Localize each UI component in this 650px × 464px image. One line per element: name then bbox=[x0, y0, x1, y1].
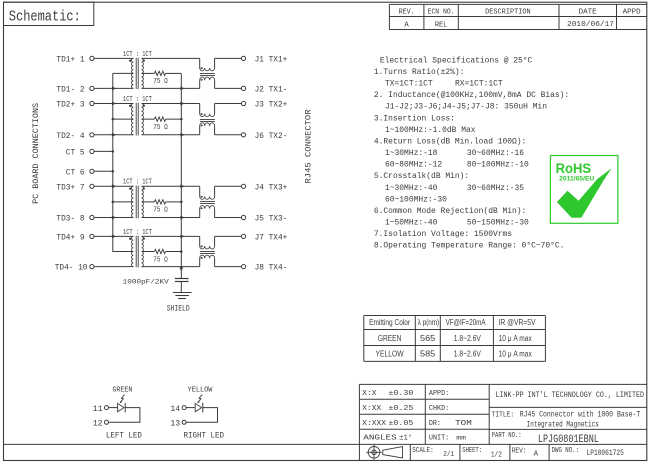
dwg field bbox=[552, 447, 624, 458]
crossover arrow right rail at J8 bbox=[179, 267, 183, 271]
svg-text:Electrical Specifications @ 25: Electrical Specifications @ 25°C bbox=[380, 56, 533, 65]
resistor R2 lead bbox=[166, 118, 182, 120]
wire capacitor to shield ground bbox=[180, 282, 182, 293]
pin 8 terminal bbox=[90, 215, 94, 219]
LED D1 green (left) bbox=[93, 387, 142, 441]
svg-text:4.Return Loss(dB Min.load 100Ω: 4.Return Loss(dB Min.load 100Ω): bbox=[374, 137, 526, 146]
RoHS logo frame bbox=[550, 156, 618, 224]
wire T2 secondary top to choke bbox=[142, 103, 200, 105]
svg-text:J8 TX4-: J8 TX4- bbox=[255, 265, 288, 273]
svg-text:REV.: REV. bbox=[399, 9, 415, 17]
transformer T3 secondary phase dot bbox=[143, 187, 145, 189]
svg-text:ANGLES: ANGLES bbox=[363, 435, 397, 443]
wire choke to pin J6 bbox=[215, 134, 242, 136]
svg-text:60~100MHz:-30: 60~100MHz:-30 bbox=[385, 195, 447, 204]
pin 4 terminal bbox=[90, 133, 94, 137]
transformer T1 secondary winding bbox=[142, 58, 144, 88]
svg-text:LPJG0801EBNL: LPJG0801EBNL bbox=[538, 434, 599, 446]
wire pin 9 bbox=[94, 235, 133, 237]
junction dot R4 on rail bbox=[180, 250, 183, 253]
pin 2 terminal bbox=[90, 86, 94, 90]
svg-text:50~150MHz:-30: 50~150MHz:-30 bbox=[467, 219, 529, 228]
revision table grid bbox=[389, 4, 646, 29]
svg-text:LINK-PP INT'L TECHNOLOGY CO.,: LINK-PP INT'L TECHNOLOGY CO., LIMITED bbox=[496, 391, 645, 400]
projection symbol bbox=[366, 445, 402, 461]
tolerance X:XX bbox=[362, 405, 413, 413]
tolerance X:X bbox=[362, 390, 413, 398]
svg-text:mm: mm bbox=[456, 435, 466, 442]
tolerance X:XXX bbox=[362, 420, 413, 428]
svg-text:J2 TX1-: J2 TX1- bbox=[255, 87, 288, 95]
resistor R2 75 Ohm bbox=[154, 117, 165, 121]
svg-text:CHKD:: CHKD: bbox=[429, 405, 449, 413]
common-mode choke L4 bbox=[200, 236, 215, 266]
resistor R3 75 Ohm bbox=[154, 200, 165, 204]
svg-text:TD4+ 9: TD4+ 9 bbox=[56, 235, 84, 243]
svg-text:30~60MHz:-16: 30~60MHz:-16 bbox=[467, 149, 524, 158]
wire T1 primary center tap bbox=[113, 72, 134, 74]
svg-text:12: 12 bbox=[93, 420, 103, 429]
transformer T2 core bbox=[135, 103, 137, 136]
wire pin 8 bbox=[94, 217, 133, 219]
svg-text:APPD:: APPD: bbox=[429, 390, 449, 398]
common-mode choke L1 bbox=[200, 58, 215, 88]
wire T3 secondary bottom to choke bbox=[142, 217, 200, 219]
svg-text:1000pF/2KV: 1000pF/2KV bbox=[123, 278, 169, 285]
wire pin 3 bbox=[94, 103, 133, 105]
capacitor C1 1000pF/2KV plates bbox=[175, 278, 189, 280]
field UNIT mm bbox=[429, 435, 466, 443]
resistor R1 lead bbox=[166, 72, 182, 74]
svg-text:SHIELD: SHIELD bbox=[167, 304, 190, 314]
pin 10 terminal bbox=[90, 265, 94, 269]
svg-text:GREEN: GREEN bbox=[378, 333, 402, 343]
pin 9 terminal bbox=[90, 234, 94, 238]
crossover arrow right rail at J4 bbox=[180, 184, 184, 188]
Schematic title box bbox=[4, 2, 94, 25]
svg-text:GREEN: GREEN bbox=[112, 387, 132, 395]
svg-text:10 μ A max: 10 μ A max bbox=[499, 333, 533, 343]
LED table YELLOW row bbox=[376, 349, 533, 359]
transformer T1 primary winding bbox=[131, 58, 133, 88]
wire choke to pin J4 bbox=[215, 185, 242, 187]
svg-text:λ p(nm): λ p(nm) bbox=[418, 318, 440, 327]
svg-text:Integrated Magnetics: Integrated Magnetics bbox=[527, 422, 600, 430]
svg-text:LP10061725: LP10061725 bbox=[587, 449, 624, 458]
wire pin 10 bbox=[94, 266, 133, 268]
pin 1 terminal bbox=[90, 56, 94, 60]
crossover arrow left rail at TD3+ bbox=[112, 184, 116, 188]
wire T3 secondary top to choke bbox=[142, 185, 200, 187]
revision table headers bbox=[399, 9, 641, 17]
wire T4 secondary center tap bbox=[142, 251, 155, 253]
svg-text:TD3+ 7: TD3+ 7 bbox=[56, 184, 84, 192]
wire T4 secondary top to choke bbox=[142, 235, 200, 237]
svg-text:DR:: DR: bbox=[429, 420, 441, 428]
revision table row A bbox=[404, 21, 614, 29]
svg-text:3.Insertion Loss:: 3.Insertion Loss: bbox=[374, 114, 455, 123]
transformer T1 primary phase dot bbox=[129, 60, 131, 62]
svg-text:SHEET:: SHEET: bbox=[462, 447, 482, 455]
transformer T3 core bbox=[135, 186, 137, 219]
wire pin 5 bbox=[94, 150, 113, 152]
crossover arrow right rail at J2 bbox=[180, 87, 184, 91]
svg-text:Schematic:: Schematic: bbox=[9, 9, 81, 25]
svg-text:1.Turns Ratio(±2%):: 1.Turns Ratio(±2%): bbox=[374, 68, 465, 77]
crossover arrow left rail at TD2- bbox=[112, 133, 116, 137]
rev field bbox=[512, 447, 539, 458]
resistor R4 75 Ohm bbox=[154, 249, 165, 253]
svg-text:TOM: TOM bbox=[455, 420, 472, 428]
wire T2 secondary center tap bbox=[142, 118, 155, 120]
svg-text:30~60MHz:-35: 30~60MHz:-35 bbox=[467, 184, 524, 193]
svg-text:X:X: X:X bbox=[362, 390, 377, 398]
junction dot R3 on rail bbox=[180, 201, 183, 204]
sheet field bbox=[462, 447, 502, 459]
wire T1 secondary top to choke bbox=[142, 57, 200, 59]
svg-text:10 μ A max: 10 μ A max bbox=[499, 349, 533, 359]
svg-text:DESCRIPTION: DESCRIPTION bbox=[485, 9, 531, 17]
svg-text:75 Ω: 75 Ω bbox=[153, 207, 168, 215]
svg-text:±0.25: ±0.25 bbox=[388, 405, 413, 413]
svg-text:TITLE:: TITLE: bbox=[492, 411, 515, 419]
transformer T1 secondary phase dot bbox=[143, 59, 145, 61]
part number field bbox=[492, 432, 599, 446]
pin J1 terminal bbox=[241, 56, 245, 60]
wire T3 secondary center tap bbox=[142, 201, 155, 203]
svg-text:14: 14 bbox=[170, 405, 180, 414]
svg-text:1CT : 1CT: 1CT : 1CT bbox=[123, 179, 152, 187]
svg-text:A: A bbox=[534, 451, 539, 459]
wire choke to pin J7 bbox=[215, 235, 242, 237]
junction dot CT pin 5 bbox=[112, 150, 115, 153]
svg-text:TD2+ 3: TD2+ 3 bbox=[56, 102, 84, 110]
wire T3 primary center tap bbox=[113, 201, 134, 203]
svg-text:1CT : 1CT: 1CT : 1CT bbox=[123, 229, 152, 237]
svg-text:CT 6: CT 6 bbox=[66, 169, 85, 177]
crossover arrow right rail at J7 bbox=[180, 235, 184, 239]
svg-text:TD1- 2: TD1- 2 bbox=[56, 87, 84, 95]
pin J7 terminal bbox=[241, 234, 245, 238]
svg-text:TD2- 4: TD2- 4 bbox=[56, 133, 84, 141]
wire pin 2 bbox=[94, 87, 133, 89]
electrical specifications text bbox=[374, 56, 569, 250]
svg-text:2/1: 2/1 bbox=[443, 451, 454, 459]
svg-text:565: 565 bbox=[420, 333, 435, 343]
common-mode choke L2 bbox=[200, 104, 215, 135]
wire choke to pin J3 bbox=[215, 103, 242, 105]
transformer T2 secondary winding bbox=[142, 104, 144, 135]
svg-text:80~100MHz:-10: 80~100MHz:-10 bbox=[467, 161, 529, 170]
svg-text:1~30MHz:-18: 1~30MHz:-18 bbox=[385, 149, 438, 158]
svg-text:PART NO.:: PART NO.: bbox=[492, 432, 522, 440]
pin 6 terminal bbox=[90, 169, 94, 173]
svg-text:1CT : 1CT: 1CT : 1CT bbox=[123, 51, 152, 59]
svg-text:REV:: REV: bbox=[512, 447, 527, 455]
svg-text:8.Operating Temperature Range:: 8.Operating Temperature Range: 0°C~70°C. bbox=[374, 242, 565, 251]
svg-text:A: A bbox=[404, 22, 409, 30]
svg-text:13: 13 bbox=[170, 420, 180, 429]
svg-text:YELLOW: YELLOW bbox=[376, 349, 405, 359]
crossover arrow left rail at TD1- bbox=[112, 87, 116, 91]
resistor R4 lead bbox=[166, 251, 182, 253]
svg-text:SCALE:: SCALE: bbox=[412, 447, 434, 455]
svg-text:2010/06/17: 2010/06/17 bbox=[567, 21, 614, 29]
LED table GREEN row bbox=[378, 333, 532, 343]
wire pin 6 bbox=[94, 170, 113, 172]
crossover arrow left rail at TD2+ bbox=[112, 102, 116, 106]
crossover arrow right rail at J6 bbox=[180, 133, 184, 137]
svg-text:PC BOARD CONNECTIONS: PC BOARD CONNECTIONS bbox=[32, 103, 41, 204]
svg-text:2. Inductance(@100KHz,100mV,8m: 2. Inductance(@100KHz,100mV,8mA DC Bias)… bbox=[374, 91, 569, 100]
svg-text:11: 11 bbox=[93, 405, 103, 414]
junction dot CT pin 6 bbox=[112, 170, 115, 173]
svg-text:VF@IF=20mA: VF@IF=20mA bbox=[446, 318, 487, 327]
wire pin 4 bbox=[94, 134, 133, 136]
svg-text:TD3- 8: TD3- 8 bbox=[56, 216, 84, 224]
svg-text:1~100MHz:-1.0dB Max: 1~100MHz:-1.0dB Max bbox=[385, 126, 476, 135]
transformer T4 primary phase dot bbox=[129, 238, 131, 240]
pin J2 terminal bbox=[241, 86, 245, 90]
pin 7 terminal bbox=[90, 184, 94, 188]
field DR TOM bbox=[429, 420, 472, 428]
LED D2 yellow (right) bbox=[170, 387, 224, 441]
svg-text:±1°: ±1° bbox=[399, 434, 412, 443]
RoHS checkmark bbox=[557, 168, 612, 218]
svg-text:60~80MHz:-12: 60~80MHz:-12 bbox=[385, 161, 442, 170]
wire choke to pin J8 bbox=[215, 266, 242, 268]
svg-text:J4 TX3+: J4 TX3+ bbox=[255, 184, 288, 192]
pin J4 terminal bbox=[241, 184, 245, 188]
wire T1 secondary center tap bbox=[142, 72, 155, 74]
svg-text:J5 TX3-: J5 TX3- bbox=[255, 216, 288, 224]
wire pin 7 bbox=[94, 185, 133, 187]
transformer T3 primary winding bbox=[131, 186, 133, 217]
LED table header row bbox=[369, 318, 536, 327]
svg-text:YELLOW: YELLOW bbox=[188, 387, 214, 395]
svg-text:585: 585 bbox=[420, 349, 435, 359]
pin 3 terminal bbox=[90, 101, 94, 105]
junction dot T3 CT bbox=[112, 201, 115, 204]
svg-text:J1 TX1+: J1 TX1+ bbox=[255, 57, 288, 65]
svg-text:TX=1CT:1CT: TX=1CT:1CT bbox=[385, 80, 433, 89]
svg-text:APPD: APPD bbox=[623, 9, 641, 17]
transformer T3 secondary winding bbox=[142, 186, 144, 217]
wire termination rail to capacitor bbox=[180, 73, 182, 278]
transformer T2 secondary phase dot bbox=[143, 105, 145, 107]
svg-text:7.Isolation Voltage: 1500Vrms: 7.Isolation Voltage: 1500Vrms bbox=[374, 230, 512, 239]
svg-text:RX=1CT:1CT: RX=1CT:1CT bbox=[455, 80, 503, 89]
svg-text:LEFT LED: LEFT LED bbox=[106, 430, 142, 440]
resistor R1 75 Ohm bbox=[154, 71, 165, 75]
wire T2 primary center tap bbox=[113, 118, 134, 120]
wire pin 1 bbox=[94, 57, 133, 59]
svg-text:DATE: DATE bbox=[579, 9, 597, 17]
title field bbox=[492, 411, 641, 429]
svg-text:5.Crosstalk(dB Min):: 5.Crosstalk(dB Min): bbox=[374, 172, 469, 181]
svg-text:RoHS: RoHS bbox=[556, 161, 592, 176]
svg-text:X:XXX: X:XXX bbox=[362, 420, 386, 428]
svg-text:75 Ω: 75 Ω bbox=[153, 78, 168, 86]
wire choke to pin J5 bbox=[215, 217, 242, 219]
svg-text:75 Ω: 75 Ω bbox=[153, 256, 168, 264]
svg-text:1~30MHz:-40: 1~30MHz:-40 bbox=[385, 184, 438, 193]
svg-text:DWG NO.:: DWG NO.: bbox=[552, 447, 579, 455]
svg-text:TD1+ 1: TD1+ 1 bbox=[56, 57, 84, 65]
common-mode choke L3 bbox=[200, 186, 215, 217]
svg-text:UNIT:: UNIT: bbox=[429, 435, 449, 443]
wire left center-tap rail bbox=[113, 73, 134, 251]
svg-text:2011/65/EU: 2011/65/EU bbox=[559, 176, 594, 183]
transformer T1 core bbox=[135, 58, 137, 89]
svg-text:J3 TX2+: J3 TX2+ bbox=[255, 102, 288, 110]
svg-text:CT 5: CT 5 bbox=[66, 150, 85, 158]
tolerance ANGLES bbox=[363, 434, 412, 443]
crossover arrow left rail at TD4+ bbox=[112, 235, 116, 239]
svg-text:75 Ω: 75 Ω bbox=[153, 124, 168, 132]
svg-text:J1-J2;J3-J6;J4-J5;J7-J8: 350uH: J1-J2;J3-J6;J4-J5;J7-J8: 350uH Min bbox=[385, 103, 547, 112]
transformer T2 primary phase dot bbox=[129, 105, 131, 107]
scale field bbox=[412, 447, 454, 459]
crossover arrow left rail at TD3- bbox=[112, 216, 116, 220]
svg-text:±0.30: ±0.30 bbox=[388, 390, 413, 398]
svg-text:REL: REL bbox=[435, 22, 448, 30]
pin J8 terminal bbox=[241, 265, 245, 269]
junction dot T2 CT bbox=[112, 118, 115, 121]
svg-text:RIGHT LED: RIGHT LED bbox=[184, 430, 225, 440]
pin J5 terminal bbox=[241, 215, 245, 219]
svg-text:IR @VR=5V: IR @VR=5V bbox=[499, 318, 537, 327]
transformer T4 core bbox=[135, 236, 137, 268]
svg-text:±0.05: ±0.05 bbox=[388, 420, 413, 428]
title block grid bbox=[4, 384, 647, 460]
transformer T3 primary phase dot bbox=[129, 187, 131, 189]
svg-text:RJ45 CONNECTOR: RJ45 CONNECTOR bbox=[305, 109, 314, 183]
wire T2 secondary bottom to choke bbox=[142, 134, 200, 136]
wire T4 secondary bottom to choke bbox=[142, 266, 200, 268]
transformer T4 secondary winding bbox=[142, 236, 144, 266]
pin 5 terminal bbox=[90, 149, 94, 153]
transformer T4 secondary phase dot bbox=[143, 237, 145, 239]
junction dot R2 on rail bbox=[180, 118, 183, 121]
svg-text:RJ45 Connector with 1000 Base-: RJ45 Connector with 1000 Base-T bbox=[520, 411, 641, 419]
svg-text:Emitting Color: Emitting Color bbox=[369, 318, 410, 327]
crossover arrow right rail at J3 bbox=[180, 102, 184, 106]
svg-text:J7 TX4+: J7 TX4+ bbox=[255, 235, 288, 243]
svg-text:TD4- 10: TD4- 10 bbox=[55, 265, 88, 273]
wire T1 secondary bottom to choke bbox=[142, 87, 200, 89]
pin J3 terminal bbox=[241, 101, 245, 105]
resistor R3 lead bbox=[166, 201, 182, 203]
transformer T2 primary winding bbox=[131, 104, 133, 135]
LED table grid bbox=[364, 316, 546, 362]
wire choke to pin J2 bbox=[215, 87, 242, 89]
svg-text:ECN NO.: ECN NO. bbox=[428, 9, 455, 17]
wire choke to pin J1 bbox=[215, 57, 242, 59]
shield ground symbol bbox=[173, 292, 192, 294]
svg-text:1~50MHz:-40: 1~50MHz:-40 bbox=[385, 219, 438, 228]
svg-text:X:XX: X:XX bbox=[362, 405, 382, 413]
svg-text:1.8~2.6V: 1.8~2.6V bbox=[454, 333, 481, 343]
pin J6 terminal bbox=[241, 133, 245, 137]
crossover arrow right rail at J5 bbox=[180, 216, 184, 220]
svg-text:1/2: 1/2 bbox=[491, 451, 502, 459]
svg-text:J6 TX2-: J6 TX2- bbox=[255, 133, 288, 141]
svg-text:1CT : 1CT: 1CT : 1CT bbox=[123, 96, 152, 104]
svg-text:6.Common Mode Rejection(dB Min: 6.Common Mode Rejection(dB Min): bbox=[374, 207, 526, 216]
transformer T4 primary winding bbox=[132, 236, 134, 266]
svg-text:1.8~2.6V: 1.8~2.6V bbox=[454, 349, 481, 359]
